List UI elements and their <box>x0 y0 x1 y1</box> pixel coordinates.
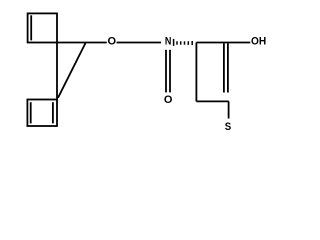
double bond inner line of top cyclobutene <box>30 15 32 40</box>
wire bond O-N <box>117 42 162 44</box>
svg-text:O: O <box>164 94 173 106</box>
cyclobutene ring top-left <box>28 13 57 42</box>
wire bond to O (horizontal) <box>57 42 107 44</box>
svg-text:S: S <box>225 122 232 134</box>
wire diagonal cyclopropane bond <box>58 43 86 98</box>
cyclobutadiene ring bottom-left <box>27 100 57 127</box>
wire bond stereocenter to enol carbon and OH <box>196 42 250 44</box>
wire vertical bond stereocenter down <box>195 43 197 102</box>
wire bottom horizontal bond <box>196 100 228 102</box>
wire bond down to S <box>228 101 230 118</box>
double bond inner line (left edge) of bottom ring <box>30 102 32 123</box>
svg-text:OH: OH <box>251 35 266 47</box>
wire vertical bond between spiro atoms <box>56 43 58 100</box>
svg-text:O: O <box>108 36 117 48</box>
double bond N=O vertical lines <box>165 50 167 93</box>
double bond inner line (right edge) of bottom ring <box>52 102 54 123</box>
svg-text:N: N <box>165 36 172 48</box>
hashed wedge bond N to stereocenter <box>174 39 193 46</box>
double bond C=CH2 vertical lines <box>223 43 225 92</box>
